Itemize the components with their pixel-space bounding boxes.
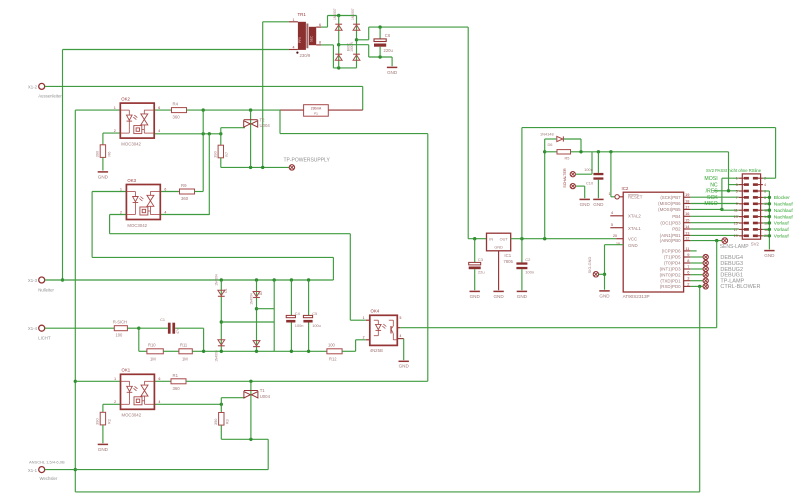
svg-text:(RXD)PD0: (RXD)PD0 — [660, 284, 681, 289]
svg-text:100n: 100n — [584, 167, 593, 172]
svg-text:(SCK)PB7: (SCK)PB7 — [660, 195, 681, 200]
svg-text:(INT1)PD3: (INT1)PD3 — [660, 267, 682, 272]
svg-text:TP-POWERSUPPLY: TP-POWERSUPPLY — [284, 158, 331, 164]
svg-text:R5: R5 — [565, 155, 570, 160]
svg-text:SEC: SEC — [309, 35, 313, 42]
svg-text:3: 3 — [736, 183, 738, 187]
svg-text:TR1: TR1 — [298, 12, 307, 17]
svg-text:1: 1 — [114, 377, 116, 381]
svg-text:Nachlauf: Nachlauf — [774, 202, 794, 208]
svg-text:OK2: OK2 — [121, 96, 130, 101]
svg-text:GND: GND — [580, 202, 591, 207]
svg-text:IN: IN — [489, 238, 493, 242]
svg-text:8: 8 — [319, 41, 321, 45]
svg-text:Vorlauf: Vorlauf — [774, 234, 790, 240]
svg-text:1: 1 — [736, 177, 738, 181]
svg-text:1500R: 1500R — [350, 42, 354, 52]
svg-text:GND: GND — [494, 246, 503, 250]
svg-text:4: 4 — [611, 211, 613, 215]
svg-text:1N4148: 1N4148 — [540, 131, 554, 136]
svg-text:360: 360 — [173, 115, 181, 120]
svg-text:XTAL2: XTAL2 — [628, 213, 641, 218]
svg-text:Nachlauf: Nachlauf — [774, 214, 794, 220]
svg-text:1M: 1M — [150, 357, 156, 362]
svg-text:7805: 7805 — [503, 259, 513, 264]
svg-text:GND: GND — [399, 364, 410, 369]
svg-text:R12: R12 — [329, 357, 337, 362]
svg-text:4: 4 — [764, 183, 766, 187]
svg-text:4N25B: 4N25B — [370, 348, 383, 353]
svg-text:F1: F1 — [314, 111, 318, 115]
svg-text:17: 17 — [734, 228, 738, 232]
svg-text:SV2: SV2 — [751, 242, 760, 247]
svg-text:ANSCHL 1,5/4-6,0B: ANSCHL 1,5/4-6,0B — [29, 459, 65, 464]
svg-text:MISO: MISO — [704, 201, 717, 207]
svg-text:5: 5 — [611, 223, 613, 227]
svg-text:D6: D6 — [548, 142, 553, 147]
svg-text:4: 4 — [400, 334, 402, 338]
svg-text:13: 13 — [734, 215, 738, 219]
svg-text:Aussenleiter: Aussenleiter — [38, 94, 62, 99]
svg-text:R9: R9 — [181, 183, 187, 188]
svg-text:MOC3042: MOC3042 — [122, 413, 142, 418]
svg-text:1M: 1M — [182, 357, 188, 362]
svg-text:6: 6 — [164, 187, 166, 191]
svg-text:GND: GND — [470, 294, 481, 299]
svg-text:9: 9 — [736, 202, 738, 206]
svg-text:NC: NC — [710, 182, 718, 188]
svg-text:D2: D2 — [259, 291, 263, 295]
svg-text:Vorlauf: Vorlauf — [774, 227, 790, 233]
svg-text:R-SICH: R-SICH — [113, 320, 127, 325]
svg-text:100n: 100n — [295, 323, 304, 328]
svg-text:22u: 22u — [478, 269, 485, 274]
svg-text:7: 7 — [687, 264, 689, 269]
svg-text:C6: C6 — [385, 33, 391, 38]
svg-text:19: 19 — [734, 234, 738, 238]
svg-text:U004: U004 — [260, 123, 271, 128]
svg-text:220u: 220u — [384, 48, 394, 53]
svg-text:390: 390 — [213, 418, 218, 425]
svg-text:IC1: IC1 — [504, 253, 511, 258]
svg-text:SCHALTER: SCHALTER — [563, 168, 567, 188]
svg-text:100: 100 — [328, 343, 336, 348]
svg-text:2: 2 — [687, 281, 689, 286]
svg-text:R10: R10 — [148, 343, 156, 348]
svg-text:(OC1)PB3: (OC1)PB3 — [660, 220, 681, 225]
svg-text:4: 4 — [293, 46, 295, 50]
svg-text:1: 1 — [363, 316, 365, 320]
svg-text:1N4004: 1N4004 — [250, 293, 254, 305]
svg-text:MOSI: MOSI — [704, 176, 717, 182]
svg-text:4: 4 — [158, 129, 160, 133]
svg-text:10: 10 — [616, 242, 620, 246]
svg-text:C5: C5 — [312, 311, 317, 316]
svg-text:/RES: /RES — [706, 189, 719, 195]
svg-text:XTAL1: XTAL1 — [628, 226, 641, 231]
svg-text:R3: R3 — [225, 419, 230, 424]
svg-text:OK4: OK4 — [371, 309, 380, 314]
svg-text:Blocker: Blocker — [774, 195, 790, 201]
svg-text:17: 17 — [685, 204, 689, 209]
svg-text:GND: GND — [764, 253, 775, 258]
svg-text:R4: R4 — [173, 102, 179, 107]
svg-text:15: 15 — [734, 221, 738, 225]
svg-text:100n: 100n — [525, 269, 534, 274]
svg-text:PB2: PB2 — [672, 227, 681, 232]
svg-text:PB4: PB4 — [672, 214, 681, 219]
svg-text:2: 2 — [114, 129, 116, 133]
svg-text:2: 2 — [114, 400, 116, 404]
svg-text:GND: GND — [593, 202, 604, 207]
svg-text:OUT: OUT — [500, 238, 509, 242]
svg-text:C1: C1 — [160, 318, 165, 322]
svg-text:360: 360 — [181, 196, 189, 201]
svg-text:(MOSI)PB5: (MOSI)PB5 — [658, 207, 681, 212]
svg-text:T1: T1 — [260, 388, 266, 393]
svg-text:IC2: IC2 — [622, 186, 629, 191]
svg-text:390: 390 — [213, 150, 218, 157]
svg-text:MOC3042: MOC3042 — [121, 141, 141, 146]
svg-text:5: 5 — [400, 316, 402, 320]
svg-text:12: 12 — [685, 236, 689, 241]
svg-text:230mA: 230mA — [311, 107, 322, 111]
svg-text:(INT0)PD2: (INT0)PD2 — [660, 272, 682, 277]
svg-text:6: 6 — [158, 106, 160, 110]
svg-text:11: 11 — [734, 209, 738, 213]
svg-text:C3: C3 — [478, 257, 484, 262]
svg-text:Vorlauf: Vorlauf — [774, 221, 790, 227]
svg-text:SENS-LAMP: SENS-LAMP — [720, 244, 750, 250]
svg-text:1: 1 — [293, 18, 295, 22]
svg-text:GND: GND — [98, 447, 109, 452]
svg-text:GND: GND — [387, 70, 398, 75]
svg-text:C4: C4 — [295, 311, 301, 316]
svg-text:GND: GND — [628, 243, 638, 248]
svg-text:GND: GND — [98, 174, 109, 179]
svg-text:2: 2 — [120, 210, 122, 214]
svg-text:R6: R6 — [106, 152, 111, 157]
svg-text:6: 6 — [687, 270, 689, 275]
svg-text:20: 20 — [613, 234, 617, 238]
svg-text:100: 100 — [116, 333, 124, 338]
svg-text:3: 3 — [687, 276, 689, 281]
svg-text:47n: 47n — [176, 328, 180, 334]
svg-text:D1: D1 — [224, 288, 228, 292]
svg-text:SIG-GND: SIG-GND — [587, 256, 592, 273]
svg-text:OK3: OK3 — [127, 178, 136, 183]
svg-text:1N4007: 1N4007 — [333, 8, 337, 20]
svg-text:SV2 PASSt nicht ohne RSline: SV2 PASSt nicht ohne RSline — [706, 168, 762, 173]
svg-text:(MISO)PB6: (MISO)PB6 — [658, 201, 681, 206]
svg-text:Nachlauf: Nachlauf — [774, 208, 794, 214]
svg-text:(T1)PD5: (T1)PD5 — [664, 255, 681, 260]
svg-text:15: 15 — [685, 218, 689, 223]
svg-text:6: 6 — [159, 377, 161, 381]
svg-text:1: 1 — [114, 106, 116, 110]
svg-text:T2: T2 — [260, 117, 266, 122]
svg-text:1: 1 — [609, 192, 611, 196]
svg-text:100u: 100u — [312, 323, 321, 328]
svg-text:CTRL-BLOWER: CTRL-BLOWER — [720, 284, 760, 290]
svg-text:390: 390 — [95, 418, 100, 425]
svg-text:X1-1: X1-1 — [28, 468, 38, 473]
svg-text:8: 8 — [687, 258, 689, 263]
svg-text:4: 4 — [164, 210, 166, 214]
svg-text:4: 4 — [159, 400, 161, 404]
svg-text:VCC: VCC — [628, 237, 637, 242]
svg-text:7: 7 — [736, 196, 738, 200]
svg-text:6: 6 — [319, 23, 321, 27]
svg-text:Nulleiter: Nulleiter — [38, 287, 54, 292]
svg-text:LICHT: LICHT — [38, 335, 51, 340]
svg-text:RESET: RESET — [628, 195, 643, 200]
svg-text:1N4004: 1N4004 — [214, 274, 218, 286]
svg-text:16: 16 — [685, 211, 689, 216]
svg-text:U004: U004 — [260, 394, 271, 399]
svg-text:18: 18 — [685, 198, 689, 203]
svg-text:PRI: PRI — [298, 37, 302, 43]
svg-text:19: 19 — [685, 192, 689, 197]
svg-text:230/9: 230/9 — [300, 53, 311, 58]
svg-text:1: 1 — [120, 187, 122, 191]
svg-text:(T0)PD4: (T0)PD4 — [664, 261, 681, 266]
svg-text:GND: GND — [493, 294, 504, 299]
svg-text:R7: R7 — [224, 152, 229, 157]
svg-text:1N4007: 1N4007 — [351, 8, 355, 20]
svg-text:11: 11 — [685, 246, 689, 251]
svg-text:C10: C10 — [586, 180, 594, 185]
svg-text:5: 5 — [736, 189, 738, 193]
svg-text:360: 360 — [173, 386, 181, 391]
svg-text:(TXD)PD1: (TXD)PD1 — [660, 278, 681, 283]
svg-text:OK1: OK1 — [122, 368, 131, 373]
svg-text:9: 9 — [687, 252, 689, 257]
svg-text:X1-2: X1-2 — [28, 84, 38, 89]
svg-text:R11: R11 — [180, 343, 188, 348]
svg-text:MOC3042: MOC3042 — [127, 223, 147, 228]
svg-text:X1-3: X1-3 — [28, 278, 38, 283]
svg-text:SCK: SCK — [707, 195, 718, 201]
svg-text:(AIN0)PB0: (AIN0)PB0 — [660, 238, 682, 243]
svg-text:C2: C2 — [525, 257, 531, 262]
svg-text:R1: R1 — [173, 373, 179, 378]
svg-text:GND: GND — [599, 293, 610, 298]
svg-text:Wechsler: Wechsler — [40, 476, 58, 481]
svg-text:390: 390 — [95, 150, 100, 157]
svg-text:AT90S2313P: AT90S2313P — [623, 294, 650, 299]
svg-text:X1-4: X1-4 — [28, 326, 38, 331]
svg-text:2: 2 — [363, 336, 365, 340]
svg-text:(ICP)PD6: (ICP)PD6 — [662, 249, 681, 254]
svg-text:R2: R2 — [106, 419, 111, 424]
svg-text:GND: GND — [517, 294, 528, 299]
